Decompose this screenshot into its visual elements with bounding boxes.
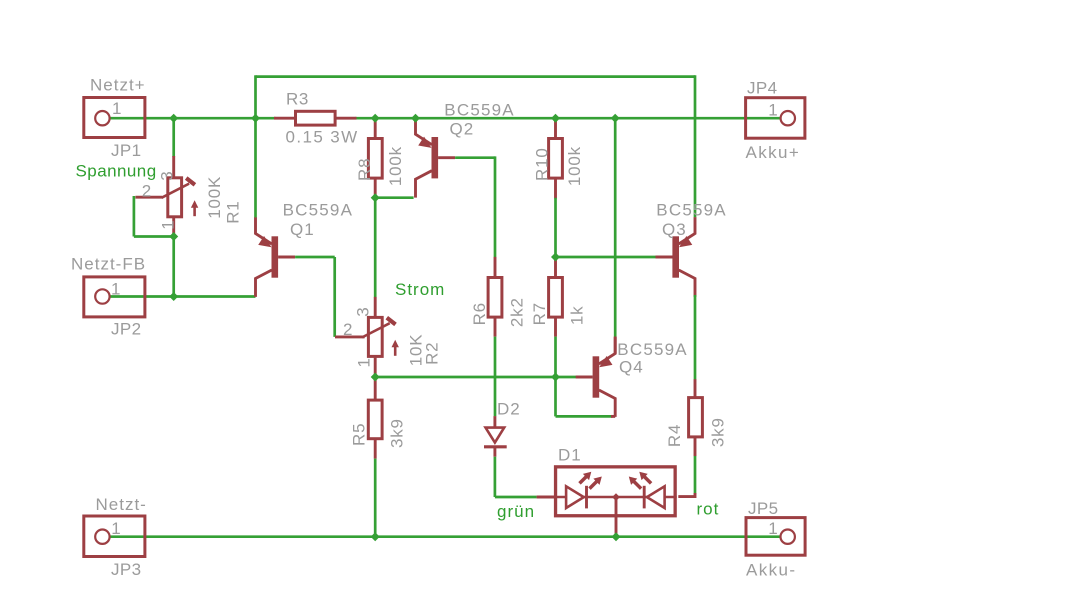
svg-text:1k: 1k <box>568 306 587 326</box>
svg-text:100k: 100k <box>565 146 584 186</box>
svg-text:BC559A: BC559A <box>444 101 515 120</box>
svg-text:rot: rot <box>697 500 720 519</box>
svg-text:Q2: Q2 <box>450 120 475 139</box>
svg-text:BC559A: BC559A <box>617 340 688 359</box>
svg-text:grün: grün <box>497 502 535 521</box>
svg-text:2: 2 <box>142 182 151 201</box>
svg-text:1: 1 <box>355 358 374 367</box>
svg-text:Akku-: Akku- <box>746 561 796 580</box>
svg-text:R5: R5 <box>350 423 369 446</box>
svg-text:R2: R2 <box>423 342 442 365</box>
svg-text:3: 3 <box>353 307 372 316</box>
svg-text:BC559A: BC559A <box>656 201 727 220</box>
svg-text:Netzt-: Netzt- <box>96 495 147 514</box>
svg-text:1: 1 <box>112 99 121 118</box>
svg-text:D2: D2 <box>497 399 521 418</box>
svg-text:0.15 3W: 0.15 3W <box>286 127 359 146</box>
svg-text:3k9: 3k9 <box>709 417 728 447</box>
svg-text:2k2: 2k2 <box>507 297 526 327</box>
svg-text:1: 1 <box>111 280 120 299</box>
svg-text:R1: R1 <box>223 200 242 223</box>
svg-text:JP5: JP5 <box>748 499 779 518</box>
svg-text:JP2: JP2 <box>111 319 142 338</box>
svg-text:100K: 100K <box>205 176 224 219</box>
svg-text:BC559A: BC559A <box>283 201 354 220</box>
svg-text:R7: R7 <box>530 302 549 325</box>
svg-text:R10: R10 <box>533 147 552 181</box>
svg-text:3: 3 <box>157 171 176 180</box>
svg-text:JP1: JP1 <box>111 141 142 160</box>
svg-text:Q1: Q1 <box>290 220 315 239</box>
svg-text:1: 1 <box>768 519 777 538</box>
svg-text:100k: 100k <box>386 146 405 186</box>
svg-text:R3: R3 <box>286 90 309 109</box>
svg-text:Spannung: Spannung <box>76 162 157 181</box>
svg-text:R8: R8 <box>355 158 374 181</box>
svg-text:JP3: JP3 <box>111 560 142 579</box>
svg-text:2: 2 <box>343 320 352 339</box>
svg-text:Q3: Q3 <box>662 220 687 239</box>
svg-text:R4: R4 <box>665 424 684 447</box>
svg-text:JP4: JP4 <box>747 78 778 97</box>
svg-text:3k9: 3k9 <box>388 418 407 448</box>
svg-text:Strom: Strom <box>395 280 445 299</box>
svg-text:1: 1 <box>159 220 178 229</box>
svg-text:R6: R6 <box>470 302 489 325</box>
svg-text:1: 1 <box>111 519 120 538</box>
svg-text:Netzt-FB: Netzt-FB <box>71 255 146 274</box>
svg-text:Akku+: Akku+ <box>746 143 801 162</box>
svg-text:D1: D1 <box>558 446 582 465</box>
svg-text:Netzt+: Netzt+ <box>90 75 146 94</box>
svg-text:1: 1 <box>768 100 777 119</box>
svg-text:Q4: Q4 <box>619 358 644 377</box>
